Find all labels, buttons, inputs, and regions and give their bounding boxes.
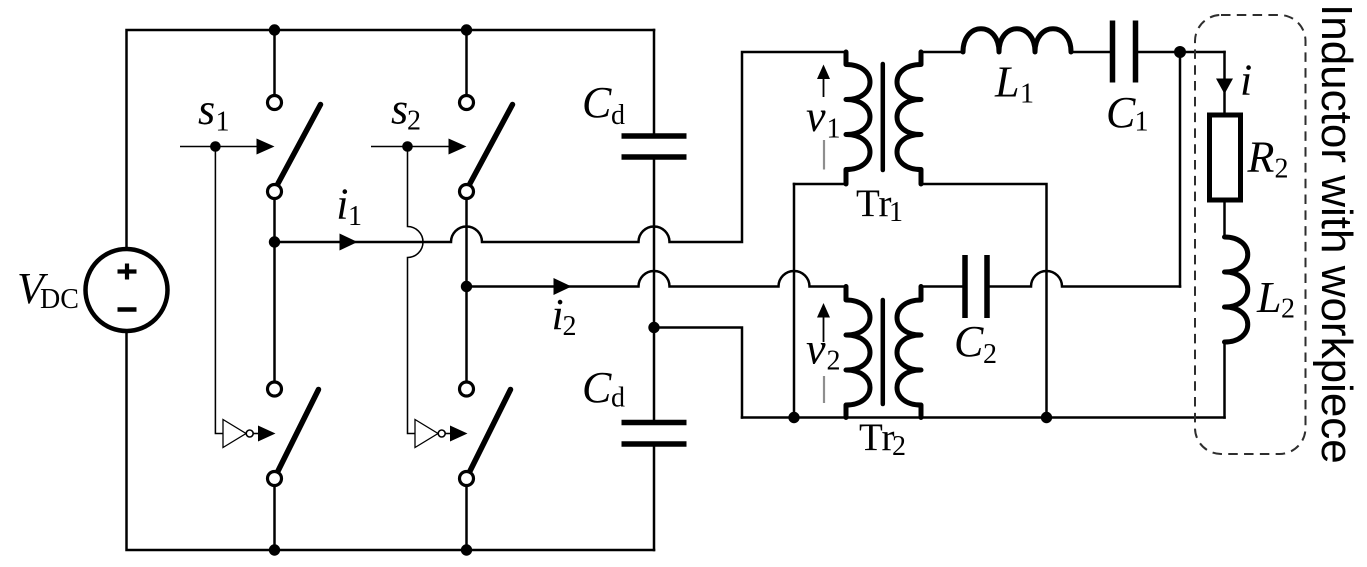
svg-text:2: 2 [892,431,906,462]
svg-text:d: d [611,100,625,131]
svg-text:1: 1 [1135,107,1149,138]
svg-text:2: 2 [983,339,997,370]
svg-text:2: 2 [407,106,421,137]
svg-text:C: C [954,317,984,366]
svg-text:R: R [1247,133,1275,182]
svg-text:v: v [806,325,826,374]
svg-text:2: 2 [1275,154,1289,185]
svg-text:d: d [611,383,625,414]
svg-text:s: s [391,85,408,134]
svg-text:s: s [198,85,215,134]
svg-text:2: 2 [563,311,577,342]
svg-text:Inductor with workpiece: Inductor with workpiece [1312,4,1361,464]
svg-text:DC: DC [40,284,79,315]
svg-text:Tr: Tr [856,182,891,225]
svg-text:2: 2 [827,346,841,377]
svg-text:1: 1 [889,197,903,228]
svg-text:L: L [994,58,1019,107]
svg-text:i: i [1240,56,1252,105]
svg-text:1: 1 [348,201,362,232]
svg-text:Tr: Tr [859,416,894,459]
svg-text:C: C [582,363,612,412]
svg-text:1: 1 [1020,79,1034,110]
svg-text:v: v [806,92,826,141]
svg-text:L: L [1256,273,1281,322]
svg-text:2: 2 [1281,294,1295,325]
svg-text:C: C [582,78,612,127]
svg-text:1: 1 [216,107,230,138]
svg-text:i: i [336,180,348,229]
svg-text:C: C [1106,88,1136,137]
svg-text:1: 1 [827,114,841,145]
